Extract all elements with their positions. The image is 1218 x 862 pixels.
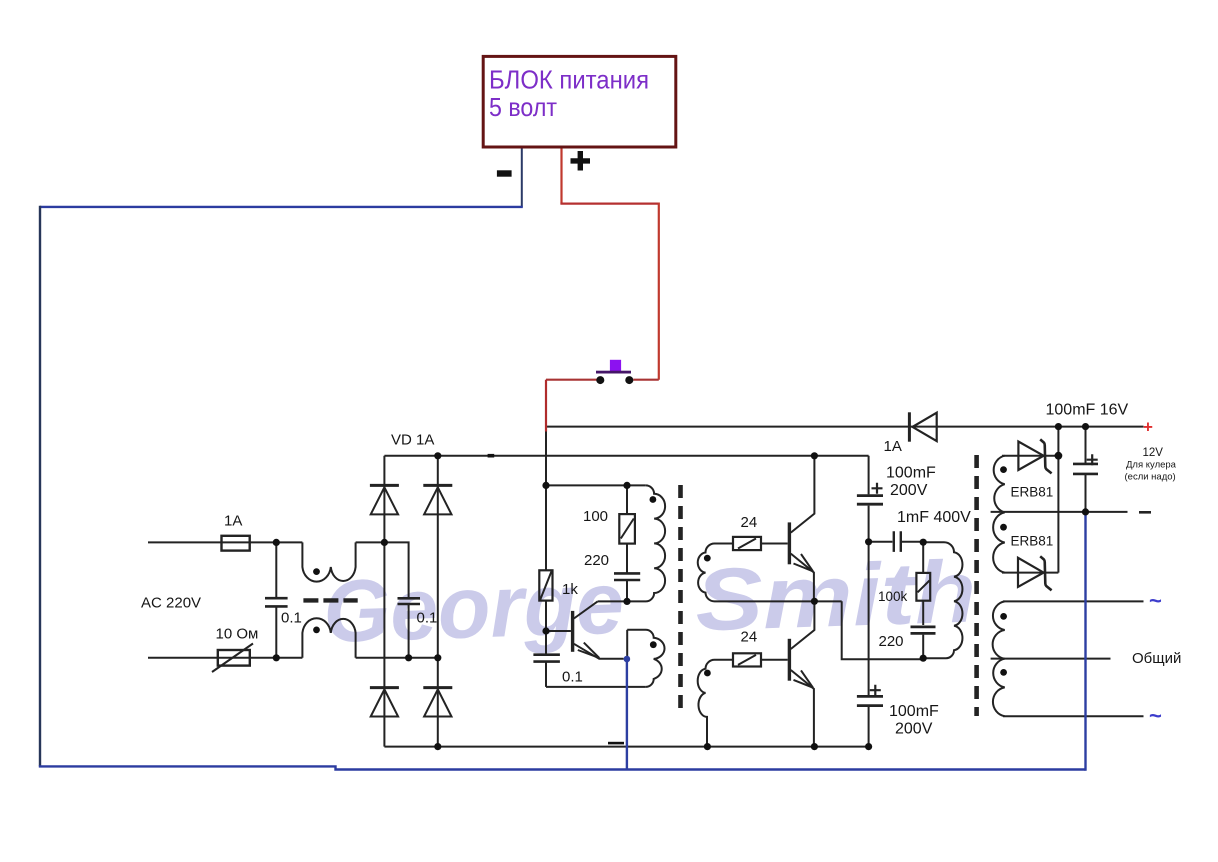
svg-text:100mF: 100mF (886, 465, 936, 482)
svg-text:100mF 16V: 100mF 16V (1046, 402, 1129, 419)
wire cap1 leads (275, 542, 277, 657)
capacitor 1mF 400V plates (894, 531, 901, 552)
switch button cap (610, 360, 621, 371)
bridge diode top-right VD2 (423, 484, 452, 487)
bridge diode bottom-right VD4 (423, 686, 452, 689)
svg-text:~: ~ (1149, 703, 1162, 728)
node AC bottom / varistor (273, 654, 280, 661)
resistor 100 (619, 514, 635, 544)
transistor Q2 (788, 522, 791, 564)
wire blue right vertical (1084, 512, 1086, 771)
svg-text:AC 220V: AC 220V (141, 595, 201, 612)
node Q2 collector bus (811, 452, 818, 459)
wire red right vertical (658, 203, 660, 380)
resistor 100k (916, 573, 930, 601)
bridge diode top-left VD1 (370, 484, 399, 487)
svg-text:~: ~ (1149, 588, 1162, 613)
bridge diode bottom-left VD3 (370, 686, 399, 689)
wire mid rail (715, 600, 842, 602)
switch button bar (596, 371, 631, 374)
node 16V cap bottom minus (1082, 508, 1089, 515)
svg-text:0.1: 0.1 (562, 669, 583, 686)
capacitor 0.1 first (265, 598, 288, 606)
node bridge left AC in (381, 539, 388, 546)
wire AC out bottom (1003, 715, 1144, 717)
box power supply 5V (483, 56, 676, 147)
transistor Q3 (788, 639, 791, 681)
wire 1mF cap leads (869, 541, 924, 543)
svg-text:Для кулера: Для кулера (1126, 460, 1177, 471)
svg-text:1A: 1A (224, 513, 242, 530)
resistor 24 top (733, 537, 761, 550)
node diode out rail (1055, 423, 1062, 430)
diode ERB81 bottom (1002, 572, 1058, 574)
wire T1 left top winding (598, 485, 666, 601)
svg-text:200V: 200V (895, 721, 933, 738)
wire 0.1 cap to winding bottom (546, 686, 646, 688)
wire T1 left bottom winding (627, 630, 664, 687)
plus mark bottom divider cap (870, 685, 881, 696)
wire 24top to Q2 base (761, 543, 788, 545)
wire bridge left column (383, 456, 385, 747)
wire 100R 220 branch verticals (626, 485, 628, 601)
switch contact left (596, 376, 604, 384)
svg-text:Общий: Общий (1132, 650, 1181, 667)
wire capacitor divider column (868, 456, 870, 747)
capacitor 100mF 200V top plates (857, 496, 883, 505)
svg-text:100: 100 (583, 508, 608, 525)
svg-text:200V: 200V (890, 482, 928, 499)
node T1 bottom right winding rail (704, 743, 711, 750)
resistor 1k (539, 570, 552, 600)
svg-text:24: 24 (741, 514, 758, 531)
capacitor 100mF 200V bottom plates (857, 696, 883, 705)
svg-text:1k: 1k (562, 581, 578, 598)
wire cap2 bottom lead (408, 604, 410, 658)
varistor 10 Om (218, 650, 250, 666)
T2 secondary bottom group winding (993, 601, 1005, 716)
wire AC line top (148, 541, 302, 543)
wire red to switch right (633, 379, 659, 381)
wire bridge right column (437, 456, 439, 747)
node small dash above bottom rail (608, 742, 624, 745)
wire AC line bottom (148, 657, 302, 659)
node mid rail (811, 598, 818, 605)
T1 core dashes (678, 485, 683, 714)
wire red top horizontal (560, 203, 658, 205)
wire output cap 16V leads (1085, 427, 1087, 512)
minus symbol (497, 170, 512, 176)
wire T2 primary winding (923, 542, 962, 658)
node AC top / cap1 (273, 539, 280, 546)
node bridge right AC in (434, 654, 441, 661)
capacitor 220 right (911, 627, 936, 634)
phase dot choke bottom (313, 627, 320, 634)
T2 core dashes (974, 455, 979, 716)
wire blue bottom horizontal (39, 766, 1086, 769)
transistor Q1 (571, 611, 574, 652)
svg-text:1mF 400V: 1mF 400V (897, 509, 971, 526)
node divider bottom rail (865, 743, 872, 750)
wire common tap (991, 658, 1111, 660)
wire blue left vertical (39, 206, 41, 767)
node chain top (542, 482, 549, 489)
wire +5V start chain vertical x546 (545, 428, 547, 687)
phase dot T2 sec 1 (1000, 466, 1007, 473)
minus terminal dash (1139, 511, 1151, 514)
svg-text:5 волт: 5 волт (489, 92, 557, 122)
plus mark top divider cap (872, 483, 883, 494)
wire ERB cathode bus vertical (1057, 427, 1059, 573)
phase dot T2 sec 3 (1000, 613, 1007, 620)
node Q1 base (542, 627, 549, 634)
node bottom rail right col (434, 743, 441, 750)
choke core dashes (303, 598, 357, 602)
wire bottom rail (384, 746, 869, 748)
phase dot T1 left top (650, 496, 657, 503)
wire AC out top (1003, 600, 1144, 602)
node T2 primary bottom (920, 655, 927, 662)
wire blue minus 5V top (521, 149, 523, 207)
fuse 1A (222, 536, 250, 551)
plus symbol (571, 151, 591, 171)
wire 100k 220 snubber verticals (922, 542, 924, 658)
node T2 primary top (920, 539, 927, 546)
switch contact right (625, 376, 633, 384)
capacitor 100mF 16V plates (1073, 464, 1098, 474)
svg-text:0.1: 0.1 (281, 610, 302, 627)
node 100R top (623, 482, 630, 489)
capacitor 0.1 second (398, 598, 421, 604)
wire AC bottom after choke to bridge (356, 657, 438, 659)
svg-text:24: 24 (741, 629, 758, 646)
resistor 24 bottom (733, 653, 761, 666)
svg-text:100mF: 100mF (889, 703, 939, 720)
wire Q1 base lead (546, 630, 571, 632)
svg-text:12V: 12V (1143, 447, 1164, 459)
svg-text:0.1: 0.1 (417, 610, 438, 627)
node Q1 collector winding (623, 598, 630, 605)
node small dash on bus (488, 454, 495, 458)
capacitor 220 left (614, 573, 640, 580)
T2 secondary top group winding (993, 456, 1005, 573)
capacitor 0.1 base (533, 655, 560, 662)
node divider mid (865, 538, 872, 545)
wire rectifier + bus (384, 455, 868, 457)
wire red down to rail (545, 380, 547, 432)
node Q3 emitter rail (811, 743, 818, 750)
svg-text:220: 220 (584, 552, 609, 569)
phase dot T2 sec 4 (1000, 669, 1007, 676)
node 16V cap top (1082, 423, 1089, 430)
svg-text:VD 1A: VD 1A (391, 432, 434, 449)
diode 1A output (908, 412, 911, 441)
wire node to T1 feedback top / 100R branch (546, 484, 646, 486)
wire red switch left segment (546, 379, 597, 381)
svg-text:100k: 100k (878, 589, 908, 604)
node blue emitter junction (624, 656, 631, 663)
phase dot choke top (313, 568, 320, 575)
phase dot T1 left bottom (650, 641, 657, 648)
svg-text:(если надо): (если надо) (1125, 472, 1176, 483)
node bus top right col (434, 452, 441, 459)
svg-text:1A: 1A (884, 438, 902, 455)
svg-text:220: 220 (879, 633, 904, 650)
svg-text:ERB81: ERB81 (1011, 485, 1054, 500)
wire 24bottom to Q3 base (761, 659, 788, 661)
wire red plus 5V stub (560, 149, 562, 204)
phase dot T2 sec 2 (1000, 524, 1007, 531)
node ERB top cathode (1055, 452, 1063, 460)
wire +5V rail from switch to output (top rail) (546, 426, 1144, 428)
svg-text:ERB81: ERB81 (1011, 534, 1054, 549)
wire minus output line (991, 511, 1128, 513)
plus mark 16V cap (1087, 454, 1098, 465)
wire T1 right top winding (698, 544, 733, 602)
choke bottom winding (302, 618, 355, 658)
wire blue branch to emitter node (626, 659, 628, 770)
svg-text:БЛОК питания: БЛОК питания (489, 65, 649, 95)
node cap2 bottom (405, 654, 412, 661)
watermark George Smith (322, 543, 941, 662)
phase dot T1 right bottom (704, 670, 711, 677)
svg-text:10 Ом: 10 Ом (216, 626, 259, 643)
choke top winding (302, 542, 355, 581)
diode ERB81 top (1002, 455, 1058, 457)
phase dot T1 right top (704, 555, 711, 562)
wire T1 right bottom winding (698, 660, 733, 747)
wire mid rail jog to T2 primary (842, 601, 924, 659)
wire AC top after choke to cap (356, 542, 409, 598)
wire winding top end to blue node (626, 630, 628, 659)
svg-text:+: + (1143, 418, 1153, 437)
